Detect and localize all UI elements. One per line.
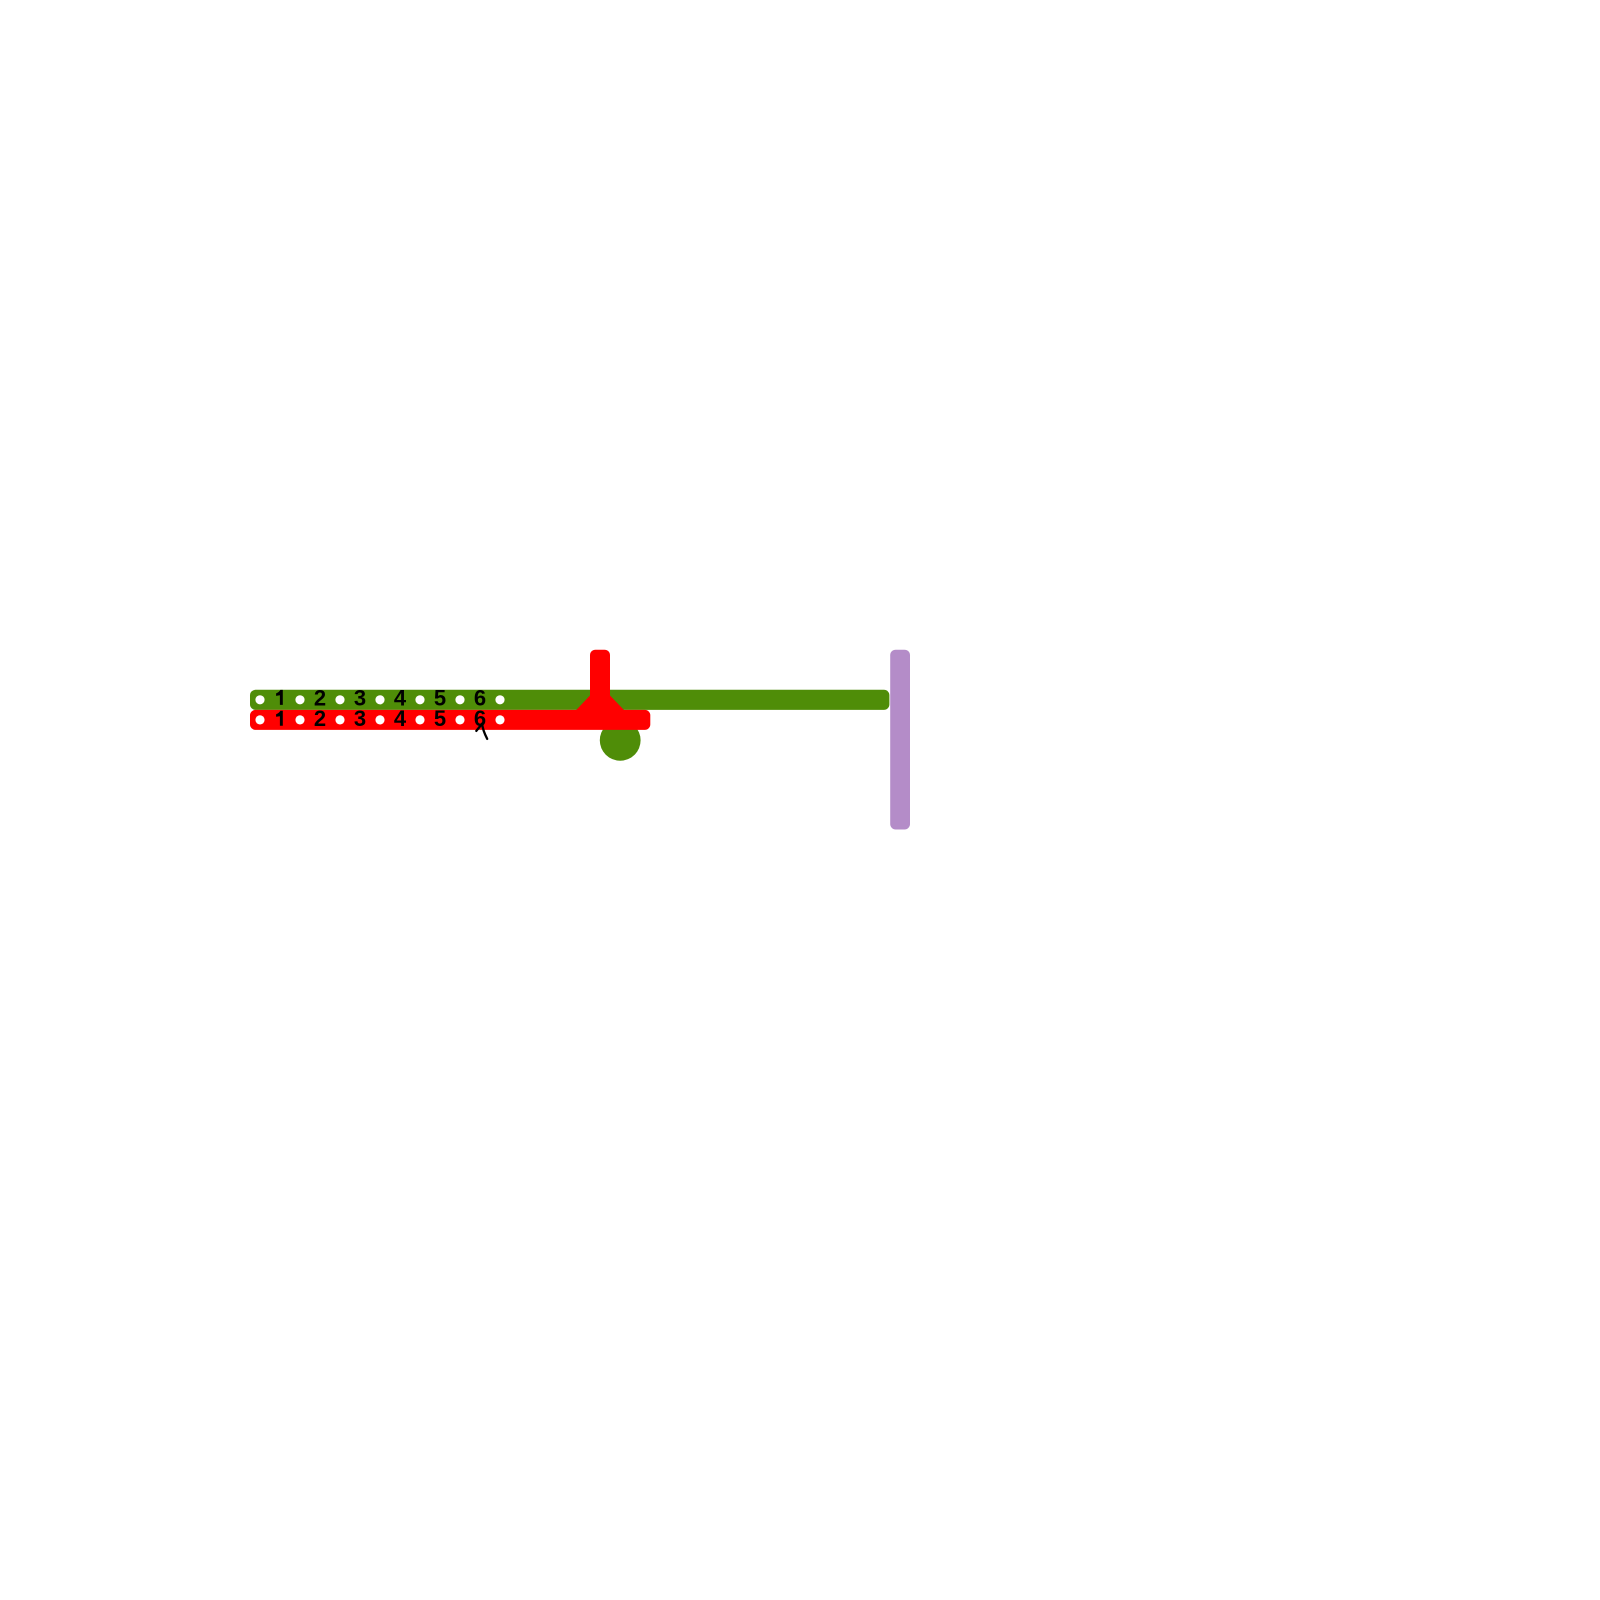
svg-text:3: 3 — [354, 706, 366, 731]
red label 1 — [276, 711, 283, 726]
purple wall bar — [890, 650, 910, 830]
red beam (10-hole bar) — [250, 710, 650, 730]
svg-text:2: 2 — [314, 706, 326, 731]
red plunger flare — [576, 696, 624, 711]
green beam (16-hole bar) — [250, 690, 889, 710]
red beam holes — [255, 715, 504, 724]
red plunger stem — [590, 650, 610, 707]
green label 1 — [276, 690, 283, 705]
cursor glyph — [476, 724, 487, 739]
green ball — [600, 720, 641, 761]
red beam numbers — [276, 706, 486, 731]
svg-text:4: 4 — [394, 706, 407, 731]
svg-text:5: 5 — [434, 706, 446, 731]
green beam numbers — [276, 685, 486, 710]
green beam holes — [255, 695, 504, 704]
